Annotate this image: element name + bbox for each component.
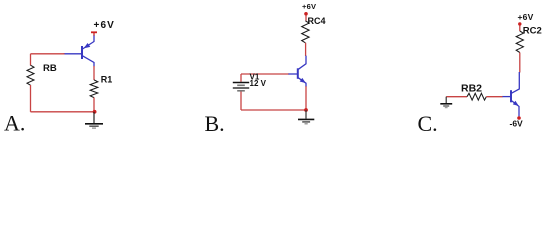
junction node (B) <box>304 108 308 112</box>
wire bottom (A) <box>31 111 95 113</box>
wire left vertical top (A) <box>30 54 32 66</box>
resistor RC4 <box>302 21 309 43</box>
wire base (B) <box>241 73 289 75</box>
wire battery top (B) <box>240 74 242 82</box>
wire bottom (B) <box>241 109 306 111</box>
transistor Q2 (NPN) <box>288 56 306 87</box>
power +6V terminal B <box>304 12 308 16</box>
resistor RB <box>27 65 34 85</box>
resistor RB2 <box>467 93 486 100</box>
svg-text:RC4: RC4 <box>308 16 326 26</box>
wire collector to R1 (A) <box>93 66 95 80</box>
svg-text:C.: C. <box>418 111 438 136</box>
svg-text:12 V: 12 V <box>250 79 267 88</box>
ground (A) <box>85 112 103 128</box>
transistor Q1 (PNP) <box>64 42 95 67</box>
junction node (A) <box>93 110 97 114</box>
wire left vertical bottom (A) <box>30 85 32 112</box>
resistor R1 <box>90 80 98 98</box>
svg-text:+6V: +6V <box>302 2 316 11</box>
wire +6V to RC4 <box>305 15 307 21</box>
power -6V terminal C <box>517 116 521 120</box>
wire battery bottom (B) <box>240 92 242 111</box>
svg-text:RB2: RB2 <box>461 83 482 95</box>
svg-text:B.: B. <box>205 111 225 136</box>
power +6V terminal C <box>518 22 521 25</box>
wire emitter to junction (B) <box>305 86 307 110</box>
svg-text:+6V: +6V <box>94 20 115 31</box>
resistor RC2 <box>516 31 523 53</box>
svg-text:+6V: +6V <box>518 12 534 22</box>
battery V1 <box>233 83 249 91</box>
svg-text:-6V: -6V <box>510 118 524 128</box>
wire R1 to junction (A) <box>93 98 95 112</box>
wire ground to RB2 (C) <box>446 96 467 98</box>
wire RB2 to base (C) <box>486 96 502 98</box>
wire +6V to RC2 <box>519 25 521 31</box>
wire RC4 to collector (B) <box>305 43 307 56</box>
ground (C) <box>440 97 452 108</box>
wire base (A) <box>31 53 65 55</box>
svg-text:R1: R1 <box>101 74 113 84</box>
power +6V terminal A <box>91 31 97 33</box>
svg-text:RC2: RC2 <box>523 26 542 37</box>
svg-text:A.: A. <box>4 110 25 135</box>
transistor Q3 (NPN) <box>502 72 519 116</box>
svg-text:RB: RB <box>43 63 57 74</box>
wire RC2 to collector (C) <box>519 53 521 73</box>
ground (B) <box>298 110 314 124</box>
wire emitter to +6V (A) <box>93 36 95 42</box>
